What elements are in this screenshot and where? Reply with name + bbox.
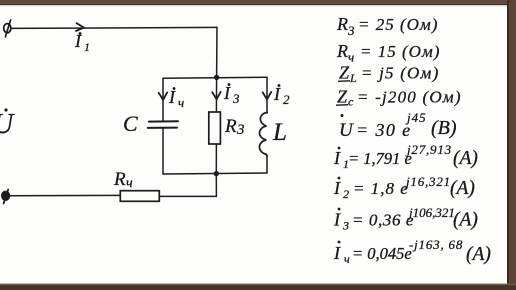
inductor L coil — [259, 113, 267, 157]
svg-text:Z: Z — [337, 87, 348, 107]
svg-text:2: 2 — [283, 92, 290, 107]
wire middle branch lower — [215, 144, 217, 174]
svg-text:= j5 (Ом): = j5 (Ом) — [361, 64, 439, 83]
svg-text:L: L — [349, 71, 357, 85]
svg-text:R: R — [336, 14, 348, 34]
svg-text:ч: ч — [178, 95, 184, 110]
wire right branch lower — [266, 156, 268, 173]
svg-text:= 1,791 e: = 1,791 e — [348, 149, 412, 168]
equation ZL = j5 (Om) — [338, 63, 439, 86]
wire stub down from bottom node — [215, 174, 217, 197]
svg-text:ч: ч — [344, 252, 350, 266]
svg-text:-j163, 68: -j163, 68 — [409, 237, 463, 252]
svg-text:(А): (А) — [453, 210, 478, 231]
wire middle branch upper — [215, 77, 217, 112]
equation R3 = 25 (Om) — [336, 14, 438, 38]
equation R4 = 15 (Om) — [336, 41, 440, 65]
label I4 — [168, 87, 184, 110]
equation U = 30 e^j45 (V) — [339, 110, 457, 141]
equation I2 = 1,8 e^j16,321 (A) — [333, 174, 475, 201]
svg-text:R: R — [336, 41, 348, 61]
equation I4 = 0,045 e^-j163,68 (A) — [333, 237, 491, 266]
svg-text:j106,321: j106,321 — [407, 205, 455, 220]
svg-text:Z: Z — [339, 63, 350, 83]
equation Zc = -j200 (Om) — [336, 87, 462, 109]
svg-text:= 15 (Ом): = 15 (Ом) — [360, 42, 440, 61]
svg-text:= 0,045e: = 0,045e — [352, 244, 412, 263]
svg-text:U: U — [0, 109, 15, 140]
arrow I4 — [159, 92, 168, 99]
svg-text:I: I — [333, 243, 341, 263]
label I3 — [223, 83, 240, 106]
node junction top — [214, 75, 219, 80]
svg-text:I: I — [168, 87, 176, 107]
svg-text:c: c — [348, 95, 354, 109]
svg-text:3: 3 — [347, 23, 355, 38]
svg-text:ч: ч — [126, 176, 133, 191]
svg-text:3: 3 — [232, 91, 240, 106]
svg-text:I: I — [223, 83, 231, 103]
svg-text:(А): (А) — [450, 178, 475, 199]
arrow I1 — [76, 23, 84, 31]
svg-text:j16,321: j16,321 — [404, 174, 451, 189]
equation I3 = 0,36 e^j106,321 (A) — [333, 205, 478, 233]
svg-text:j45: j45 — [405, 110, 427, 125]
svg-text:= 30 e: = 30 e — [356, 120, 412, 140]
label I2 — [273, 84, 290, 107]
frame top edge — [0, 0, 516, 4]
wire top rail of parallel group — [163, 77, 267, 78]
wire from R4 to stub — [160, 195, 217, 197]
svg-text:= 25 (Ом): = 25 (Ом) — [358, 15, 438, 34]
resistor R3 body — [209, 112, 221, 144]
svg-text:3: 3 — [342, 219, 349, 233]
svg-text:R: R — [113, 169, 126, 190]
svg-text:(А): (А) — [453, 148, 478, 169]
arrow I3 — [212, 92, 221, 99]
label R3 — [224, 116, 245, 138]
wire left branch lower — [162, 128, 164, 174]
arrow I2 — [263, 92, 272, 99]
svg-text:U: U — [339, 120, 354, 141]
node junction bottom — [214, 171, 219, 176]
svg-text:= -j200 (Ом): = -j200 (Ом) — [357, 88, 462, 107]
svg-text:R: R — [224, 116, 237, 137]
wire right branch upper — [266, 77, 268, 113]
wire vertical from top to node — [216, 27, 218, 77]
svg-text:I: I — [333, 178, 341, 198]
svg-text:C: C — [123, 111, 138, 136]
terminal phi bottom-left — [2, 190, 10, 204]
svg-text:3: 3 — [236, 122, 245, 138]
label U source — [0, 109, 15, 141]
wire bottom rail of parallel group — [163, 173, 267, 174]
svg-text:I: I — [273, 84, 281, 104]
frame bottom edge — [0, 285, 516, 290]
wire bottom-left horizontal — [7, 194, 120, 196]
svg-text:= 1,8 e: = 1,8 e — [353, 179, 409, 198]
terminal phi top-left — [4, 20, 11, 37]
svg-text:L: L — [272, 119, 287, 146]
label I1 — [74, 31, 90, 54]
label R4 — [113, 169, 133, 191]
svg-text:j27,913: j27,913 — [405, 142, 452, 157]
resistor R4 body — [120, 191, 159, 202]
svg-text:2: 2 — [343, 187, 349, 201]
equation I1 = 1,791 e^j27,913 (A) — [333, 142, 478, 171]
svg-text:1: 1 — [84, 40, 90, 54]
capacitor C plates — [149, 120, 178, 122]
wire top horizontal — [11, 27, 217, 28]
svg-text:I: I — [333, 148, 341, 168]
svg-text:(В): (В) — [431, 117, 457, 139]
svg-text:= 0,36 e: = 0,36 e — [352, 211, 414, 230]
svg-text:I: I — [333, 210, 341, 230]
frame right edge — [508, 0, 516, 290]
wire left branch upper — [162, 78, 164, 121]
svg-text:(А): (А) — [466, 244, 491, 265]
